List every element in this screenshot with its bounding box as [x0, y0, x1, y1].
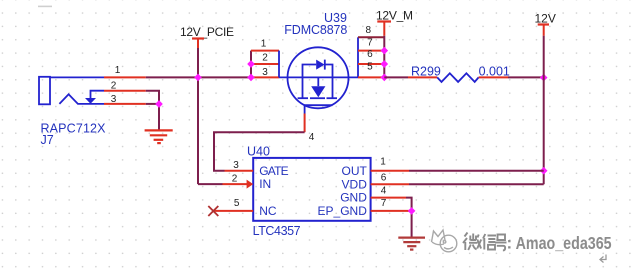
no connect X	[208, 206, 218, 216]
U40 pin 5 NC	[214, 210, 253, 212]
wire OUT to 12V	[409, 170, 544, 172]
wire 12V vertical	[543, 36, 545, 184]
resistor value 0.001	[479, 65, 510, 79]
svg-text:6: 6	[367, 49, 373, 60]
svg-text:EP_GND: EP_GND	[318, 204, 368, 218]
watermark colon and text	[507, 233, 612, 253]
U40 pin 7 EP_GND	[371, 210, 412, 212]
U40 pin 6 VDD	[371, 183, 409, 185]
svg-text:OUT: OUT	[342, 164, 368, 178]
U39 pin 4	[304, 114, 306, 133]
svg-text:3: 3	[111, 94, 117, 105]
svg-text:1: 1	[261, 39, 267, 50]
MOSFET U39 designator	[284, 11, 347, 37]
svg-text:J7: J7	[41, 133, 54, 147]
U39 pin 1	[251, 50, 279, 52]
return arrow	[600, 255, 606, 263]
svg-text:4: 4	[309, 132, 315, 143]
junction 12V main	[540, 74, 548, 82]
crop mark	[38, 6, 52, 8]
svg-text:8: 8	[366, 25, 372, 36]
pin number 4	[381, 185, 387, 196]
junction ladder pin6	[380, 60, 388, 68]
pin number 3	[111, 94, 117, 105]
wire to R299	[384, 76, 408, 78]
wire main net from J7 pin1 to MOSFET	[146, 76, 251, 78]
U39 pin 7	[358, 50, 384, 52]
svg-text:2: 2	[111, 80, 117, 91]
wire right ladder vertical	[383, 36, 385, 78]
MOSFET U39 symbol	[279, 37, 358, 113]
junction ladder pin3	[247, 74, 255, 82]
svg-text:FDMC8878: FDMC8878	[284, 23, 347, 37]
svg-text:3: 3	[262, 67, 268, 78]
wire VDD to 12V	[409, 183, 544, 185]
wire 12V_PCIE down to IN	[197, 48, 199, 184]
wire J7 pin2 to ground	[146, 91, 159, 130]
U39 pin 8	[358, 36, 384, 38]
svg-text:Amao_eda365: Amao_eda365	[516, 233, 612, 253]
wire R299 to 12V	[508, 76, 544, 78]
U39 pin 6	[358, 63, 384, 65]
svg-text:4: 4	[381, 185, 387, 196]
wire J7 pin3 to ground	[146, 103, 159, 105]
pin number 5	[367, 62, 373, 73]
power port 12V	[535, 11, 556, 36]
pin number 7	[381, 198, 387, 209]
svg-text:R299: R299	[411, 65, 441, 79]
svg-text:U40: U40	[247, 144, 270, 158]
junction 12V_PCIE main	[194, 74, 202, 82]
svg-text:1: 1	[380, 156, 386, 167]
junction at J7 pin3	[155, 100, 163, 108]
pin number 1	[380, 156, 386, 167]
svg-text:7: 7	[367, 37, 373, 48]
svg-text:IN: IN	[259, 177, 271, 191]
wire to U40 IN	[198, 183, 223, 185]
svg-text:2: 2	[262, 53, 268, 64]
pin number 2	[262, 53, 268, 64]
svg-text:GATE: GATE	[259, 164, 289, 178]
svg-text:2: 2	[232, 173, 238, 184]
pin number 7	[367, 37, 373, 48]
U40 pin texts	[259, 164, 367, 218]
pin number 8	[366, 25, 372, 36]
svg-text:NC: NC	[259, 204, 277, 218]
power port 12V_PCIE	[180, 25, 234, 48]
pin number 2	[111, 80, 117, 91]
pin number 3	[262, 67, 268, 78]
resistor R299 pin right	[479, 76, 508, 78]
svg-text::: :	[507, 234, 513, 253]
pin number 2	[232, 173, 238, 184]
resistor R299 body	[437, 73, 478, 82]
connector pin 3	[104, 103, 146, 105]
svg-text:0.001: 0.001	[479, 65, 510, 79]
pin number 1	[115, 65, 121, 76]
pin number 6	[381, 172, 387, 183]
ground symbol under U40	[398, 238, 425, 250]
U40 pin 2 IN	[223, 180, 254, 189]
svg-text:6: 6	[381, 172, 387, 183]
IC U40 designator	[247, 144, 301, 238]
junction EP_GND	[408, 207, 416, 215]
junction ladder pin2	[247, 60, 255, 68]
svg-text:3: 3	[233, 160, 239, 171]
svg-text:GND: GND	[340, 191, 367, 205]
U39 pin 2	[251, 63, 279, 65]
svg-text:VDD: VDD	[342, 177, 368, 191]
connector J7 RAPC712X body	[39, 77, 104, 105]
pin number 1	[261, 39, 267, 50]
U40 pin 1 OUT	[371, 170, 409, 172]
svg-text:LTC4357: LTC4357	[253, 224, 301, 238]
watermark text 微信号	[463, 233, 507, 251]
connector pin 2	[104, 90, 146, 92]
wire GND down	[406, 198, 412, 238]
body diode	[316, 60, 324, 70]
pin number 6	[367, 49, 373, 60]
connector pin 1	[104, 76, 146, 78]
U39 pin 3	[251, 76, 279, 78]
junction ladder pin5	[380, 74, 388, 82]
U40 pin 3 GATE	[225, 170, 254, 172]
U40 pin 4 GND	[371, 197, 406, 199]
svg-text:1: 1	[115, 65, 121, 76]
svg-text:12V_PCIE: 12V_PCIE	[180, 25, 234, 39]
pin number 3	[233, 160, 239, 171]
power port 12V_M	[376, 9, 413, 36]
wire U39 gate to U40 GATE	[214, 132, 305, 171]
resistor designator R299	[411, 65, 441, 79]
IC U40 body	[253, 158, 370, 221]
pin number 5	[234, 198, 240, 209]
watermark cat logo	[432, 230, 457, 252]
svg-text:5: 5	[367, 62, 373, 73]
wire vertical left ladder	[250, 51, 252, 78]
svg-text:7: 7	[381, 198, 387, 209]
mosfet arrow	[311, 86, 325, 97]
pin number 4	[309, 132, 315, 143]
connector designator J7	[41, 122, 107, 147]
U39 pin 5	[358, 76, 384, 78]
connector switch arrow	[85, 98, 96, 104]
svg-text:5: 5	[234, 198, 240, 209]
ground symbol under J7	[145, 130, 173, 143]
svg-text:12V: 12V	[535, 11, 556, 25]
junction 12V OUT	[540, 167, 548, 175]
junction ladder pin7	[380, 47, 388, 55]
resistor R299 pin left	[408, 76, 437, 78]
